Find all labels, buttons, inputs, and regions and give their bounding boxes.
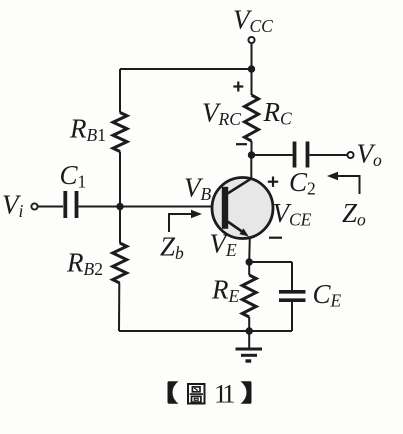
resistor RB2: [113, 243, 127, 283]
wire CE bottom: [291, 302, 293, 331]
svg-text:11: 11: [214, 378, 234, 408]
wire base: [120, 206, 222, 208]
transistor Q1: [212, 178, 273, 239]
wire emitter: [248, 238, 251, 263]
bracket right: [241, 381, 252, 404]
wire input right: [78, 206, 120, 208]
wire RC to collector node: [251, 141, 253, 155]
wire top horizontal: [120, 68, 252, 70]
minus sign VRC: [236, 143, 247, 145]
capacitor C1: [65, 191, 76, 218]
label plus C2: [268, 177, 278, 187]
wire left rail bottom: [118, 283, 120, 331]
minus sign VCE: [269, 237, 282, 239]
plus sign VRC: [233, 82, 243, 92]
bracket left: [168, 381, 179, 404]
wire left rail upper: [119, 69, 121, 113]
arrow Zb: [169, 210, 202, 232]
capacitor C2: [295, 142, 308, 168]
wire collector node to C2: [252, 154, 293, 156]
ground: [236, 331, 263, 361]
capacitor CE: [279, 292, 306, 300]
wire collector: [250, 155, 252, 179]
wire VCC to RC: [251, 69, 253, 95]
wire C2 to Vo: [310, 154, 348, 156]
terminal Vi: [31, 203, 37, 209]
arrow Zo: [327, 172, 360, 194]
glyph tu: [188, 384, 205, 404]
resistor RB1: [113, 113, 127, 152]
node collector junction: [248, 151, 255, 158]
wire left rail lower: [119, 207, 121, 244]
wire CE down: [291, 262, 293, 290]
wire bottom horizontal: [119, 330, 292, 332]
node input junction: [116, 203, 123, 210]
wire input left: [38, 206, 63, 208]
node top junction: [248, 65, 255, 72]
caption figure 11: [168, 378, 252, 408]
wire left rail mid: [119, 152, 121, 207]
node ground junction: [246, 327, 253, 334]
label plus VCE: [266, 180, 268, 182]
terminal Vo: [347, 152, 353, 158]
resistor RE: [242, 275, 256, 317]
wire RE to ground: [248, 317, 250, 331]
resistor RC: [245, 95, 259, 141]
node emitter junction: [246, 258, 253, 265]
wire emitter to RE: [248, 262, 250, 275]
terminal VCC: [248, 37, 254, 69]
wire emitter to CE top: [249, 261, 292, 263]
